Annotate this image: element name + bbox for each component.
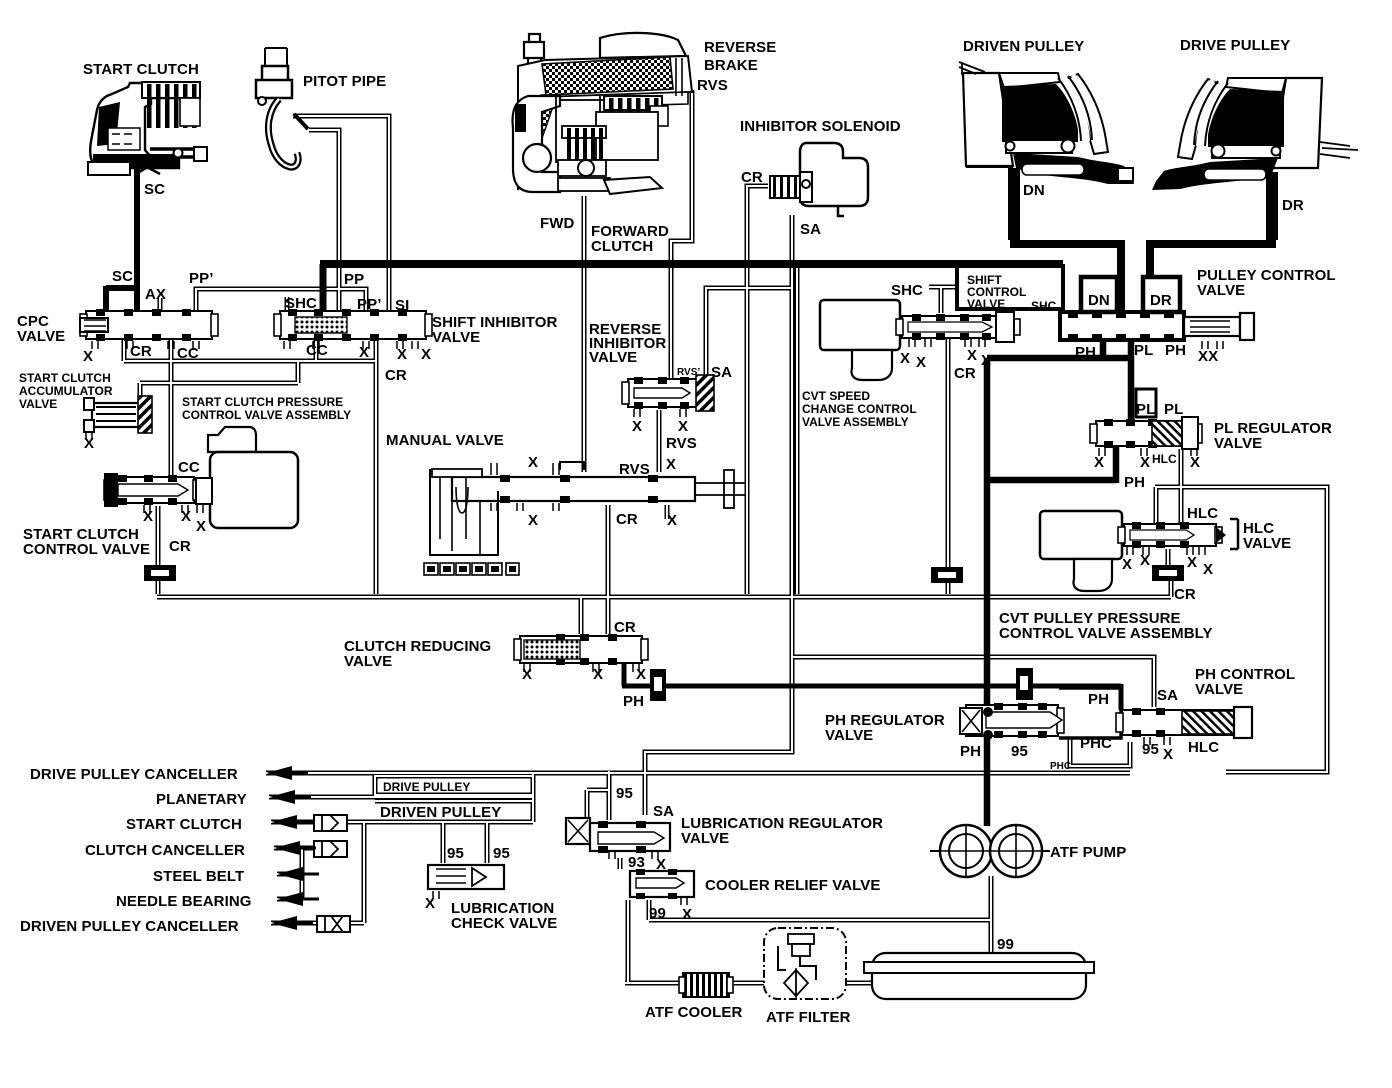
svg-text:VALVE: VALVE xyxy=(19,397,57,411)
wire canceller riser xyxy=(300,848,305,899)
svg-text:PH: PH xyxy=(960,743,981,760)
svg-text:PH: PH xyxy=(1088,691,1109,708)
svg-text:X: X xyxy=(397,346,407,363)
wire SHC stub (shift inhibitor) xyxy=(285,297,290,311)
svg-text:SC: SC xyxy=(112,268,133,285)
svg-text:X: X xyxy=(636,666,646,683)
output arrows xyxy=(266,766,292,780)
svg-text:PL: PL xyxy=(1134,342,1153,359)
svg-text:CLUTCH CANCELLER: CLUTCH CANCELLER xyxy=(85,842,245,859)
svg-text:X: X xyxy=(916,354,926,371)
svg-text:RVS: RVS xyxy=(697,77,728,94)
svg-text:PH: PH xyxy=(1075,344,1096,361)
wire drive pulley canceller line xyxy=(266,771,1130,776)
PH regulator valve xyxy=(966,705,1058,736)
svg-text:X: X xyxy=(522,666,532,683)
svg-text:SA: SA xyxy=(800,221,821,238)
node DN box xyxy=(1081,277,1117,312)
orifice (PH line, mid) xyxy=(1016,668,1033,700)
start clutch xyxy=(88,82,207,175)
svg-text:X: X xyxy=(528,454,538,471)
HLC solenoid xyxy=(1040,511,1122,559)
svg-text:X: X xyxy=(1094,454,1104,471)
wire CVT speed box left edge xyxy=(795,268,800,594)
svg-text:DRIVE PULLEY: DRIVE PULLEY xyxy=(1180,37,1290,54)
svg-text:SA: SA xyxy=(1157,687,1178,704)
svg-text:DR: DR xyxy=(1150,292,1172,309)
shift control valve xyxy=(902,316,1014,338)
wire AX stub xyxy=(158,298,163,311)
svg-text:REVERSE: REVERSE xyxy=(704,39,776,56)
wire CVT pulley pressure box outline xyxy=(1155,487,1327,772)
svg-text:START CLUTCH: START CLUTCH xyxy=(126,816,242,833)
svg-text:XX: XX xyxy=(1198,348,1218,365)
CPC valve xyxy=(86,311,212,339)
start clutch accumulator valve xyxy=(84,396,152,440)
wire DRIVE PULLEY label box xyxy=(375,776,533,795)
svg-text:VALVE ASSEMBLY: VALVE ASSEMBLY xyxy=(802,415,909,429)
svg-text:HLC: HLC xyxy=(1188,739,1219,756)
wire cooler loop drop xyxy=(626,900,631,983)
HLC valve xyxy=(1124,524,1216,546)
wire 99 line xyxy=(649,900,991,920)
svg-text:PL: PL xyxy=(1164,401,1183,418)
svg-text:NEEDLE BEARING: NEEDLE BEARING xyxy=(116,893,252,910)
wire: PH thick net xyxy=(987,336,1129,826)
svg-text:95: 95 xyxy=(1142,741,1159,758)
svg-text:COOLER RELIEF VALVE: COOLER RELIEF VALVE xyxy=(705,877,881,894)
svg-text:CR: CR xyxy=(954,365,976,382)
svg-text:VALVE: VALVE xyxy=(432,329,480,346)
PL regulator valve xyxy=(1096,421,1196,446)
svg-text:CR: CR xyxy=(1174,586,1196,603)
svg-text:CR: CR xyxy=(741,169,763,186)
svg-text:93: 93 xyxy=(628,854,645,871)
svg-text:X: X xyxy=(359,344,369,361)
wire: PL thick line xyxy=(1128,336,1135,420)
svg-text:X: X xyxy=(967,347,977,364)
svg-text:VALVE: VALVE xyxy=(681,830,729,847)
wire planetary line xyxy=(269,795,533,800)
pulley control valve xyxy=(1060,312,1184,340)
svg-text:AX: AX xyxy=(145,286,166,303)
svg-text:X: X xyxy=(1187,554,1197,571)
svg-text:VALVE: VALVE xyxy=(1243,535,1291,552)
wire CR-CC bus below CPC valve xyxy=(124,339,376,361)
lubrication regulator valve xyxy=(566,818,670,859)
svg-text:VALVE: VALVE xyxy=(589,349,637,366)
svg-text:DRIVEN PULLEY CANCELLER: DRIVEN PULLEY CANCELLER xyxy=(20,918,239,935)
svg-text:INHIBITOR SOLENOID: INHIBITOR SOLENOID xyxy=(740,118,901,135)
reverse inhibitor valve xyxy=(628,379,700,407)
svg-text:95: 95 xyxy=(616,785,633,802)
svg-text:PHC: PHC xyxy=(1080,735,1112,752)
wire bottom bus xyxy=(157,581,1171,597)
wire: thick left box edge xyxy=(320,264,327,322)
svg-text:PP: PP xyxy=(344,271,364,288)
wire pump-to-pan line xyxy=(989,876,994,962)
CVT speed change solenoid xyxy=(820,300,900,350)
svg-text:SHC: SHC xyxy=(285,295,317,312)
svg-text:CR: CR xyxy=(614,619,636,636)
reverse brake / forward clutch xyxy=(513,33,692,194)
svg-text:RVS’: RVS’ xyxy=(677,367,700,378)
wire risers to lubrication check valve xyxy=(443,822,487,863)
manual valve xyxy=(424,462,745,575)
svg-text:RVS: RVS xyxy=(619,461,650,478)
svg-text:DRIVEN PULLEY: DRIVEN PULLEY xyxy=(963,38,1084,55)
driven pulley xyxy=(959,62,1134,184)
svg-text:SA: SA xyxy=(653,803,674,820)
svg-text:PH: PH xyxy=(1124,474,1145,491)
svg-text:PH: PH xyxy=(1165,342,1186,359)
svg-text:X: X xyxy=(181,508,191,525)
orifice (CR, shift control valve line) xyxy=(931,567,963,583)
svg-text:X: X xyxy=(196,518,206,535)
svg-text:95: 95 xyxy=(447,845,464,862)
svg-text:CHECK VALVE: CHECK VALVE xyxy=(451,915,557,932)
clutch reducing valve xyxy=(520,636,642,663)
svg-text:95: 95 xyxy=(1011,743,1028,760)
svg-text:X: X xyxy=(682,906,692,923)
svg-text:X: X xyxy=(83,348,93,365)
svg-text:STEEL BELT: STEEL BELT xyxy=(153,868,244,885)
svg-text:SHC: SHC xyxy=(1031,299,1057,313)
svg-text:ATF COOLER: ATF COOLER xyxy=(645,1004,742,1021)
svg-text:X: X xyxy=(1203,561,1213,578)
svg-text:CR: CR xyxy=(130,343,152,360)
check valve (start clutch line) xyxy=(314,815,347,831)
svg-text:PLANETARY: PLANETARY xyxy=(156,791,247,808)
wire CR line (start clutch control valve) xyxy=(156,506,161,594)
drive pulley xyxy=(1152,78,1358,190)
svg-text:PHC: PHC xyxy=(1050,761,1071,772)
svg-text:SA: SA xyxy=(711,364,732,381)
wire PP-prime line xyxy=(196,289,366,313)
svg-text:X: X xyxy=(421,346,431,363)
svg-text:PP’: PP’ xyxy=(189,270,213,287)
svg-text:CR: CR xyxy=(385,367,407,384)
wire HLC drops xyxy=(1156,449,1181,523)
svg-text:X: X xyxy=(667,512,677,529)
wire label-box riser xyxy=(531,773,536,822)
wire FWD line xyxy=(582,196,587,472)
svg-text:X: X xyxy=(900,350,910,367)
wire CC riser (shift inhibitor) xyxy=(314,339,319,361)
svg-text:VALVE: VALVE xyxy=(17,328,65,345)
svg-text:X: X xyxy=(1140,552,1150,569)
svg-text:95: 95 xyxy=(493,845,510,862)
svg-text:VALVE: VALVE xyxy=(1195,681,1243,698)
svg-text:PH: PH xyxy=(623,693,644,710)
PHC interconnect box xyxy=(1059,688,1121,738)
wire CR line (HLC valve) xyxy=(1166,549,1171,565)
wire SI line xyxy=(293,116,389,313)
svg-text:SI: SI xyxy=(395,297,409,314)
svg-text:VALVE: VALVE xyxy=(967,297,1005,311)
svg-text:X: X xyxy=(981,352,991,369)
svg-text:RVS: RVS xyxy=(666,435,697,452)
svg-text:BRAKE: BRAKE xyxy=(704,57,758,74)
wire SA main drop xyxy=(790,215,795,657)
wire CR line (shift control valve) xyxy=(946,338,951,594)
svg-text:PP’: PP’ xyxy=(357,296,381,313)
oil pan (ATF reservoir) xyxy=(864,953,1094,999)
orifice (CR, below HLC valve) xyxy=(1152,565,1184,581)
svg-text:VALVE: VALVE xyxy=(344,653,392,670)
svg-text:START CLUTCH PRESSURE: START CLUTCH PRESSURE xyxy=(182,395,343,409)
wire: DN line xyxy=(1008,168,1020,240)
wire CR line (shift inhibitor) xyxy=(374,337,379,594)
wire start clutch line xyxy=(271,820,533,825)
check valve (clutch canceller line) xyxy=(314,841,347,857)
svg-text:X: X xyxy=(528,512,538,529)
svg-text:X: X xyxy=(593,666,603,683)
svg-text:CHANGE CONTROL: CHANGE CONTROL xyxy=(802,402,917,416)
wire RVS line (to manual valve) xyxy=(657,410,662,472)
svg-text:CR: CR xyxy=(616,511,638,528)
svg-text:X: X xyxy=(1140,454,1150,471)
wire: thick main pressure line (top border) xyxy=(320,260,1063,268)
wire accumulator bus xyxy=(140,361,298,399)
cooler relief valve xyxy=(630,869,694,905)
svg-text:X: X xyxy=(425,895,435,912)
pitot pipe xyxy=(256,48,308,167)
wire DRIVEN PULLEY label line xyxy=(375,799,533,804)
ATF cooler xyxy=(683,973,729,997)
svg-text:X: X xyxy=(666,456,676,473)
svg-text:X: X xyxy=(143,508,153,525)
svg-text:X: X xyxy=(1163,746,1173,763)
svg-text:PL: PL xyxy=(1136,401,1155,418)
orifice (PH, right of clutch reducing valve) xyxy=(650,669,666,701)
svg-text:VALVE: VALVE xyxy=(1197,282,1245,299)
svg-text:X: X xyxy=(84,435,94,452)
svg-text:X: X xyxy=(632,418,642,435)
wire: PH line from clutch reducing valve xyxy=(622,661,1121,710)
wire SA branch (reverse inhibitor) xyxy=(706,288,792,377)
start clutch control valve xyxy=(110,477,194,503)
wire riser to clutch reducing valve xyxy=(579,597,584,634)
wire needle bearing line xyxy=(277,897,302,902)
svg-text:SC: SC xyxy=(144,181,165,198)
wire CR line (inhibitor solenoid) xyxy=(747,186,768,594)
lubrication check valve xyxy=(428,865,504,899)
wire CR line (manual valve) xyxy=(606,505,611,634)
svg-text:HLC: HLC xyxy=(1152,452,1177,466)
svg-text:DRIVE PULLEY CANCELLER: DRIVE PULLEY CANCELLER xyxy=(30,766,238,783)
wire PP line xyxy=(309,130,339,313)
svg-text:SHC: SHC xyxy=(891,282,923,299)
wire driven pulley canceller line xyxy=(271,822,364,923)
wire clutch canceller line xyxy=(274,846,347,851)
svg-text:HLC: HLC xyxy=(1187,505,1218,522)
svg-text:CONTROL VALVE ASSEMBLY: CONTROL VALVE ASSEMBLY xyxy=(999,625,1213,642)
svg-text:CONTROL VALVE: CONTROL VALVE xyxy=(23,541,150,558)
wire steel belt line xyxy=(277,872,302,877)
svg-text:DN: DN xyxy=(1088,292,1110,309)
svg-text:X: X xyxy=(1122,556,1132,573)
shift inhibitor valve xyxy=(280,311,426,339)
svg-text:DR: DR xyxy=(1282,197,1304,214)
wire PHC jog xyxy=(1070,738,1130,766)
svg-text:X: X xyxy=(1190,454,1200,471)
PH control valve xyxy=(1122,710,1240,735)
wire SA branch (lubrication regulator) xyxy=(645,657,792,815)
svg-text:FWD: FWD xyxy=(540,215,575,232)
check valve (driven pulley canceller line) xyxy=(317,916,350,932)
node DR box xyxy=(1143,277,1180,312)
wire CC line xyxy=(169,339,174,475)
svg-text:X: X xyxy=(678,418,688,435)
wire white cores (hollow line interiors) xyxy=(124,90,1327,983)
svg-text:VALVE: VALVE xyxy=(825,727,873,744)
inhibitor solenoid xyxy=(770,143,868,216)
svg-text:ATF PUMP: ATF PUMP xyxy=(1050,844,1126,861)
wire SA branch (PH control valve) xyxy=(792,657,1154,707)
svg-text:VALVE: VALVE xyxy=(1214,435,1262,452)
svg-text:X: X xyxy=(656,856,666,873)
svg-text:PITOT PIPE: PITOT PIPE xyxy=(303,73,386,90)
wire 93 link xyxy=(618,858,623,869)
svg-text:CONTROL VALVE ASSEMBLY: CONTROL VALVE ASSEMBLY xyxy=(182,408,351,422)
wire cooler/filter line xyxy=(625,981,878,986)
svg-text:CVT SPEED: CVT SPEED xyxy=(802,389,870,403)
svg-text:CC: CC xyxy=(177,345,199,362)
svg-text:ATF FILTER: ATF FILTER xyxy=(766,1009,851,1026)
svg-text:CLUTCH: CLUTCH xyxy=(591,238,653,255)
wire stub (manual valve) xyxy=(665,505,670,519)
wire SHC stub (shift control) xyxy=(929,287,957,313)
wire RVS line (reverse brake) xyxy=(671,90,692,379)
svg-text:ACCUMULATOR: ACCUMULATOR xyxy=(19,384,113,398)
svg-text:DRIVE PULLEY: DRIVE PULLEY xyxy=(383,780,470,794)
svg-text:START CLUTCH: START CLUTCH xyxy=(19,371,111,385)
wire 95 risers xyxy=(587,771,609,820)
svg-text:CR: CR xyxy=(169,538,191,555)
svg-text:CC: CC xyxy=(178,459,200,476)
wire: DR line xyxy=(1266,172,1278,240)
svg-text:DN: DN xyxy=(1023,182,1045,199)
ATF pump xyxy=(930,825,1050,877)
svg-text:99: 99 xyxy=(649,905,666,922)
svg-text:MANUAL VALVE: MANUAL VALVE xyxy=(386,432,504,449)
svg-text:DRIVEN PULLEY: DRIVEN PULLEY xyxy=(380,804,501,821)
svg-text:START CLUTCH: START CLUTCH xyxy=(83,61,199,78)
orifice (CR, start clutch control valve line) xyxy=(144,565,176,581)
start clutch linear solenoid xyxy=(196,427,298,528)
svg-text:99: 99 xyxy=(997,936,1014,953)
ATF filter xyxy=(764,928,846,999)
svg-text:CC: CC xyxy=(306,342,328,359)
wire: SC line xyxy=(106,168,140,311)
